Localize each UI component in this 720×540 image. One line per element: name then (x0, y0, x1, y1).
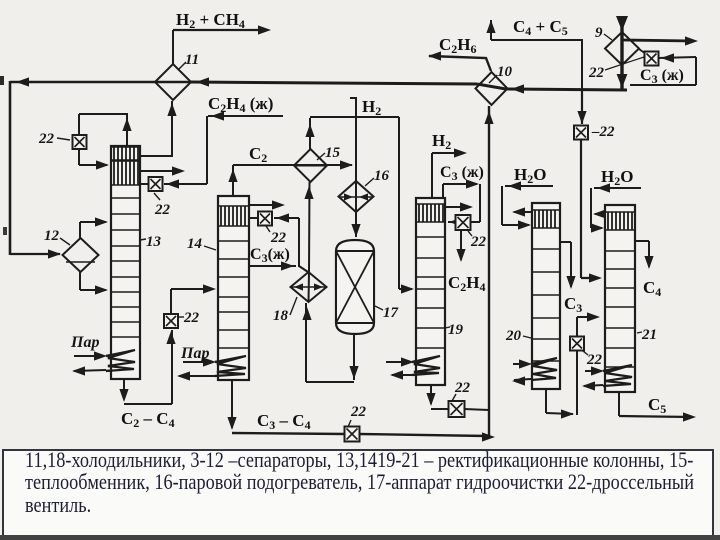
wire: column 14 bottoms (231, 381, 233, 428)
rectification column 14 (218, 196, 249, 380)
wire: bottoms riser (171, 330, 173, 404)
reboiler coil column 20 overlay (531, 358, 557, 380)
wire: column 13 top riser (126, 114, 128, 147)
svg-text:Пар: Пар (180, 345, 209, 362)
svg-text:10: 10 (497, 64, 513, 80)
wire: loop right side (695, 57, 697, 85)
throttle valve 22 (C2H4 feed) (149, 177, 163, 191)
arrowhead up column 13 riser (122, 118, 131, 131)
arrowhead into column 13 (96, 160, 109, 169)
reboiler coil column 13 overlay (106, 350, 135, 371)
wire: C4+C5 up arrow (490, 20, 492, 40)
arrowhead merging below cooler 9 (617, 74, 628, 88)
wire: H2 feed tick (350, 97, 357, 99)
wire: long riser to separator 10 (488, 106, 490, 437)
svg-text:21: 21 (641, 327, 657, 343)
arrowhead side draw junction (281, 261, 294, 270)
wire: C3-C4 line (232, 433, 345, 434)
wire: column 13 side product (140, 170, 180, 172)
scan speck left margin top (0, 76, 4, 85)
wire: drop to column 19 feed (398, 117, 400, 289)
wire: riser to separator 11 (171, 101, 173, 157)
wire: heat in column 19 (386, 361, 411, 363)
separator 12 (63, 238, 99, 272)
wire: C4 takeoff (635, 240, 649, 242)
wire: into column 14 (171, 288, 213, 290)
throttle valve 22 (column 20 bottoms) (570, 337, 584, 351)
svg-text:16: 16 (374, 168, 390, 184)
svg-text:17: 17 (383, 305, 399, 321)
svg-text:C3(ж): C3(ж) (250, 246, 290, 265)
wire: separator 12 bottom branch (79, 271, 81, 290)
bottom scan bar (0, 535, 720, 540)
reboiler coil column 19 overlay (412, 356, 440, 375)
svg-text:Пар: Пар (70, 334, 99, 351)
separator 10 (476, 72, 508, 105)
throttle valve 22 (C3 liquid line) (574, 126, 588, 140)
wire: drop to main line (581, 40, 583, 89)
throttle valve 22 (cooler 9 loop) (645, 52, 659, 66)
svg-text:22: 22 (454, 380, 471, 396)
wire: valve to long riser (464, 409, 489, 410)
svg-text:13: 13 (146, 234, 162, 250)
arrowhead recycle left (16, 77, 29, 86)
wire: heat in column 20 (513, 363, 529, 365)
svg-text:20: 20 (505, 328, 522, 344)
rectification column 19 (416, 198, 445, 385)
wire: H2O out column 20 (514, 211, 532, 213)
wire: top branch horizontal (310, 116, 399, 118)
arrowhead up into separator 11 (167, 103, 176, 116)
wire through heater 16 (355, 181, 357, 212)
wire through exchanger 15 (294, 165, 327, 167)
svg-text:9: 9 (595, 25, 603, 41)
arrowhead H2+CH4 output (258, 25, 271, 34)
svg-text:22: 22 (586, 352, 603, 368)
wire: steam in column 13 (74, 355, 103, 357)
arrowhead column 13 side product (172, 166, 185, 175)
wire: cooler 18 to separator 15 (308, 182, 311, 272)
svg-text:C2 – C4: C2 – C4 (121, 409, 175, 430)
wire: column 13 overhead (140, 155, 172, 157)
wire: riser to valve 22 (298, 218, 300, 267)
wire: outlet horizontal (306, 381, 354, 383)
arrowhead feed upper (95, 217, 108, 226)
arrowhead feed into column 19 (401, 284, 414, 293)
wire: valve to corner (170, 289, 172, 314)
reboiler coil column 13 (106, 350, 135, 371)
throttle valve 22 (column 13 reflux) (73, 135, 87, 149)
arrowhead at riser corner (561, 409, 574, 418)
wire: cooler 9 line to separator 10 (506, 89, 627, 90)
throttle valve 22 (column 13 bottoms) (164, 314, 178, 328)
separator 9 (605, 32, 639, 65)
caption box (2, 449, 714, 535)
wire: valve to column 13 (140, 183, 148, 185)
wire: separator 12 top branch (79, 222, 81, 238)
wire: column 21 bottoms (618, 392, 620, 416)
wire: valve feed line (658, 57, 696, 58)
rectification column 21 (605, 205, 635, 392)
reboiler coil column 21 (603, 365, 632, 386)
svg-text:22: 22 (270, 230, 287, 246)
arrowhead up into valve 22 (166, 331, 175, 344)
wire: C2H4 product (460, 230, 462, 260)
svg-text:15: 15 (325, 145, 341, 161)
wire: H2O drop (501, 186, 503, 225)
wire: reflux riser column 19 (442, 184, 444, 201)
wire: column 20 bottoms (545, 389, 547, 413)
wire: cooler 9 to valve 22 (639, 49, 646, 54)
arrowhead up into separator 10 (484, 111, 493, 124)
arrowhead up into separator 15 (304, 186, 313, 199)
wire: drop below valve 22 (580, 139, 582, 278)
svg-text:22: 22 (470, 234, 487, 250)
wire: into separator 12 (10, 253, 60, 255)
wire: C2H6 offgas (429, 56, 491, 71)
svg-text:19: 19 (448, 322, 464, 338)
wire: H2O column 21 top (594, 187, 641, 189)
arrowhead into separator 12 (48, 249, 61, 258)
svg-text:C3 – C4: C3 – C4 (257, 411, 311, 432)
wire: H2+CH4 horizontal (173, 29, 267, 31)
wire: H2O into condenser 21 (591, 227, 602, 229)
wire: diamond 11 top to H2+CH4 corner (172, 30, 174, 64)
wire: into valve (274, 217, 299, 219)
wire: C3 liquid drop (581, 91, 583, 124)
wire: feed through cooler 9 (620, 16, 623, 89)
wire: cooler 18 top slant (299, 266, 308, 272)
wire: valve into column 19 (448, 221, 455, 223)
wire: reactor 17 outlet (353, 334, 355, 380)
wire: C2H4 liquid feed (208, 115, 283, 117)
heat exchanger 15 (294, 149, 327, 182)
wire: valve 22 to column 13 (78, 148, 80, 165)
svg-text:22: 22 (588, 65, 605, 81)
wire: column 19 overhead H2 (431, 153, 433, 201)
wire: H2O drop 21 (590, 188, 592, 228)
svg-text:22: 22 (183, 310, 200, 326)
wire: column 14 side product (249, 204, 281, 206)
arrowhead into valve 22 (166, 179, 179, 188)
wire: riser through valve 22 (576, 350, 578, 415)
svg-text:C3 (ж): C3 (ж) (640, 67, 684, 86)
wire: column 13 bottoms (123, 380, 125, 399)
wire: gas outlet top right (622, 40, 694, 41)
arrowhead feed lower (95, 285, 108, 294)
wire: C3 takeoff (560, 241, 571, 243)
wire: main line separator 10 to separator 11 (191, 82, 477, 84)
wire: into column 21 upper feed (581, 277, 599, 279)
reboiler coil column 20 (531, 358, 557, 380)
wire: column 14 overhead riser (232, 165, 234, 196)
reboiler coil column 14 (215, 356, 246, 376)
wire: heater 16 to reactor 17 (355, 212, 357, 237)
svg-text:14: 14 (187, 236, 203, 252)
wire: steam in column 14 (183, 361, 212, 363)
svg-text:12: 12 (44, 228, 60, 244)
svg-text:22: 22 (154, 202, 171, 218)
svg-text:C4 + C5: C4 + C5 (513, 17, 568, 38)
rectification column 13 (111, 146, 140, 379)
wire: steam out column 13 (74, 370, 106, 371)
wire: H2O out column 21 (595, 213, 605, 215)
svg-text:11: 11 (185, 52, 199, 68)
wire: column 19 bottoms (430, 386, 432, 404)
reboiler coil column 19 (412, 356, 440, 375)
svg-text:18: 18 (273, 308, 289, 324)
wire: down to valve 22 (78, 114, 80, 136)
wire: H2O into condenser 20 (502, 224, 529, 226)
wire: bottoms horizontal (124, 403, 172, 405)
wire: separator 15 top riser (309, 118, 311, 149)
svg-text:H2 + CH4: H2 + CH4 (176, 10, 245, 31)
wire: loop drop (479, 184, 481, 222)
rectification column 20 (532, 203, 560, 389)
wire: recycle to left edge (10, 81, 155, 84)
wire: valve to column 14 (249, 217, 258, 219)
wire: riser to cooler 18 (305, 303, 307, 382)
wire: C3 liquid loop top (443, 183, 477, 185)
wire through separator 11 (155, 81, 191, 84)
cooler 18 (291, 272, 327, 302)
wire: junction to heater 16 (355, 165, 357, 181)
svg-text:22: 22 (350, 404, 367, 420)
arrowhead into separator 10 (511, 84, 524, 93)
arrowhead C2H4 feed (211, 111, 224, 120)
throttle valve 22 (column 14 top) (258, 212, 272, 226)
arrowhead before H2 junction (340, 160, 353, 169)
wire: H2O column 20 top (505, 185, 553, 187)
thick arrowhead above cooler 9 (616, 16, 628, 31)
wire through cooler 18 (308, 272, 311, 302)
wire: heat in column 21 (585, 370, 601, 372)
throttle valve 22 (column 19 reflux) (456, 215, 471, 230)
wire: C2 line through exchanger 15 (233, 164, 352, 166)
wire: column 19 side product (445, 206, 469, 208)
wire: into column 13 (79, 164, 107, 166)
wire: loop top (79, 113, 128, 115)
scan speck left margin mid (3, 227, 7, 235)
wire: C2H4 feed drop (206, 116, 208, 184)
wire: C4+C5 horizontal (491, 39, 583, 41)
wire: left edge vertical (9, 81, 12, 255)
reboiler coil column 14 overlay (215, 356, 246, 376)
arrowhead at riser corner (482, 432, 495, 441)
separator 11 (cooler) (155, 64, 191, 100)
hydrotreater vessel 17 (336, 240, 374, 334)
steam heater 16 (339, 181, 374, 212)
wire: H2 feed drop (355, 98, 357, 166)
wire: heat out column 19 (392, 374, 413, 376)
wire: column 14 side draw (249, 265, 296, 267)
svg-text:–22: –22 (591, 124, 615, 140)
throttle valve 22 (C3-C4 line) (345, 427, 360, 442)
reboiler coil column 21 overlay (603, 365, 632, 386)
wire: into valve 22 (164, 183, 207, 185)
wire: into column 21 lower feed (577, 316, 597, 318)
arrowhead into separator 11 (196, 77, 209, 86)
wire: heat out column 20 (514, 379, 531, 380)
wire through separator 10 (477, 84, 506, 89)
wire: C3-C4 line after valve (359, 434, 487, 436)
svg-text:C3 (ж): C3 (ж) (440, 164, 484, 183)
wire: heat out column 21 (584, 385, 603, 386)
wire: steam out column 14 (179, 375, 215, 377)
wire: C5 line (619, 416, 692, 417)
wire: loop return (630, 84, 696, 86)
svg-text:22: 22 (38, 131, 55, 147)
throttle valve 22 (column 19 bottoms) (449, 401, 465, 417)
